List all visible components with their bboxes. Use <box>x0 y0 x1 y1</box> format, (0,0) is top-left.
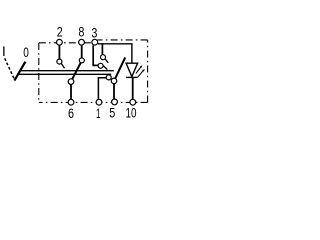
svg-text:1: 1 <box>96 105 101 121</box>
svg-text:3: 3 <box>91 25 97 41</box>
svg-text:8: 8 <box>78 24 84 40</box>
svg-text:2: 2 <box>57 24 63 40</box>
svg-text:0: 0 <box>23 44 29 60</box>
svg-text:6: 6 <box>68 105 74 121</box>
svg-text:5: 5 <box>109 105 115 121</box>
svg-text:10: 10 <box>126 105 137 121</box>
